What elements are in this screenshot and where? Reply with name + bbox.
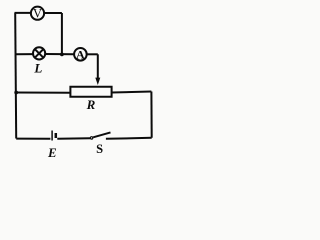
svg-text:E: E — [47, 145, 57, 160]
svg-text:L: L — [33, 61, 42, 76]
svg-text:A: A — [76, 47, 85, 61]
svg-text:V: V — [33, 6, 42, 20]
svg-text:R: R — [86, 97, 96, 112]
svg-text:S: S — [96, 142, 103, 156]
